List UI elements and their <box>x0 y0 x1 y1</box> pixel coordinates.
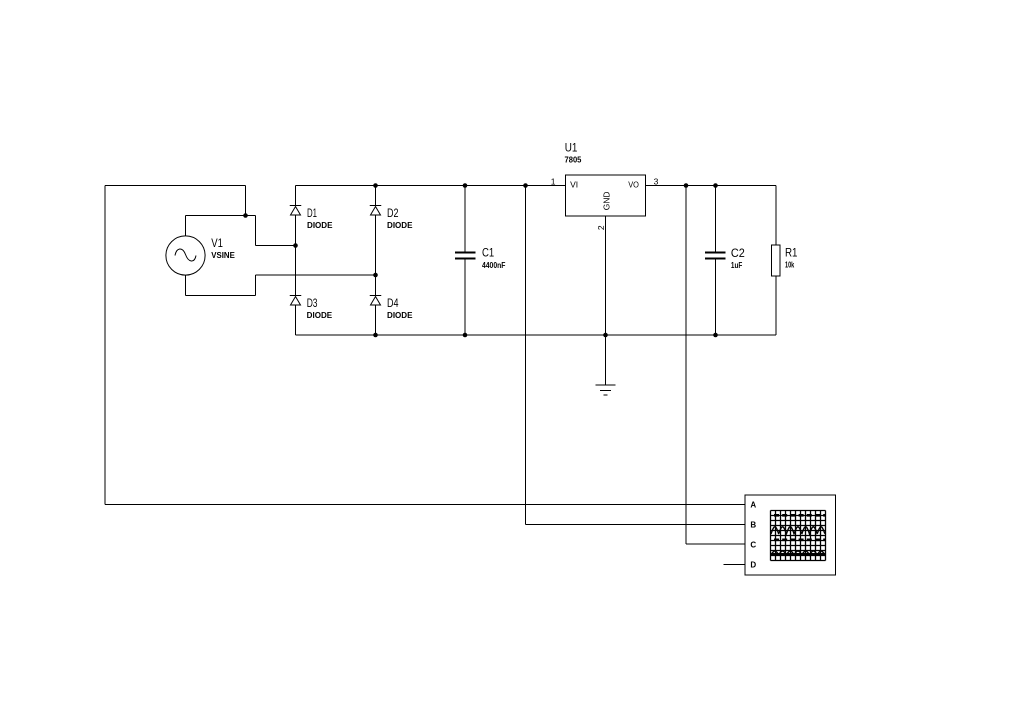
svg-text:D4: D4 <box>387 296 399 310</box>
svg-text:D: D <box>750 561 756 570</box>
svg-text:2: 2 <box>596 225 606 230</box>
svg-text:D2: D2 <box>387 206 399 220</box>
svg-text:C2: C2 <box>731 246 745 260</box>
svg-text:1uF: 1uF <box>731 261 742 270</box>
svg-text:B: B <box>750 521 756 530</box>
svg-text:D3: D3 <box>307 296 318 310</box>
svg-text:3: 3 <box>654 177 659 187</box>
svg-text:VSINE: VSINE <box>211 251 235 260</box>
svg-text:V1: V1 <box>211 236 223 250</box>
svg-text:DIODE: DIODE <box>387 221 413 230</box>
svg-text:10k: 10k <box>785 261 795 270</box>
svg-text:DIODE: DIODE <box>307 221 333 230</box>
svg-text:GND: GND <box>602 192 612 211</box>
svg-text:A: A <box>750 501 756 510</box>
svg-text:VO: VO <box>628 180 639 190</box>
svg-text:VI: VI <box>570 180 578 190</box>
svg-text:7805: 7805 <box>565 156 582 165</box>
svg-text:1: 1 <box>551 177 556 187</box>
svg-text:DIODE: DIODE <box>307 311 333 320</box>
svg-text:4400nF: 4400nF <box>482 261 505 270</box>
svg-text:R1: R1 <box>785 246 798 260</box>
svg-text:D1: D1 <box>307 206 317 220</box>
svg-text:DIODE: DIODE <box>387 311 413 320</box>
svg-text:C1: C1 <box>482 246 494 260</box>
svg-text:U1: U1 <box>565 140 578 154</box>
svg-text:C: C <box>750 541 756 550</box>
